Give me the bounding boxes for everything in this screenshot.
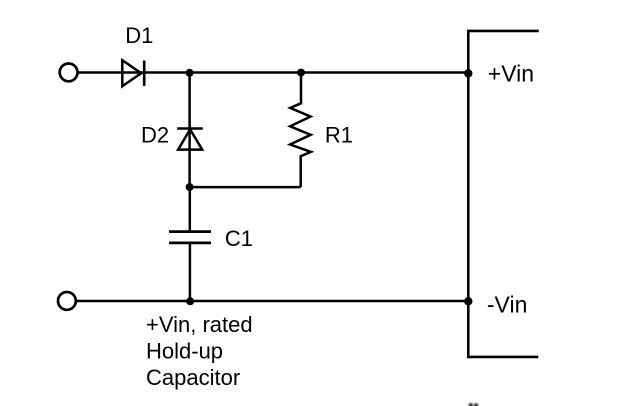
note text hold-up capacitor — [146, 312, 253, 390]
resistor R1 — [290, 73, 311, 188]
node junction D (top of C1) — [186, 183, 194, 191]
svg-text:Hold-up: Hold-up — [146, 339, 223, 364]
wire C1 top lead — [189, 187, 192, 232]
node -Vin junction — [464, 297, 472, 305]
diode D1 — [122, 60, 144, 86]
node +Vin junction — [464, 69, 472, 77]
svg-text:D2: D2 — [141, 122, 169, 147]
connector bracket right — [468, 31, 539, 357]
node junction A (top of D2) — [186, 69, 194, 77]
wire lower horizontal (D2/R1 to C1 node) — [190, 186, 301, 189]
svg-text:+Vin, rated: +Vin, rated — [146, 312, 253, 337]
svg-text:-Vin: -Vin — [487, 292, 528, 318]
watermark fragment bottom — [469, 403, 479, 406]
svg-text:C1: C1 — [225, 226, 253, 251]
svg-text:Capacitor: Capacitor — [146, 365, 240, 390]
capacitor C1 — [169, 232, 211, 243]
wire C1 bottom lead — [189, 243, 192, 301]
terminal bottom-left input — [58, 292, 76, 310]
svg-text:R1: R1 — [325, 122, 353, 147]
node junction E (bottom of C1) — [186, 297, 194, 305]
terminal top-left input — [60, 64, 78, 82]
svg-text:+Vin: +Vin — [488, 61, 534, 87]
svg-text:D1: D1 — [125, 23, 153, 48]
wire top rail — [78, 71, 469, 74]
wire D2 branch vertical — [188, 73, 191, 187]
node junction B (top of R1) — [297, 69, 305, 77]
wire bottom rail — [76, 300, 468, 303]
diode D2 (zener-less, pointing up) — [177, 129, 203, 150]
